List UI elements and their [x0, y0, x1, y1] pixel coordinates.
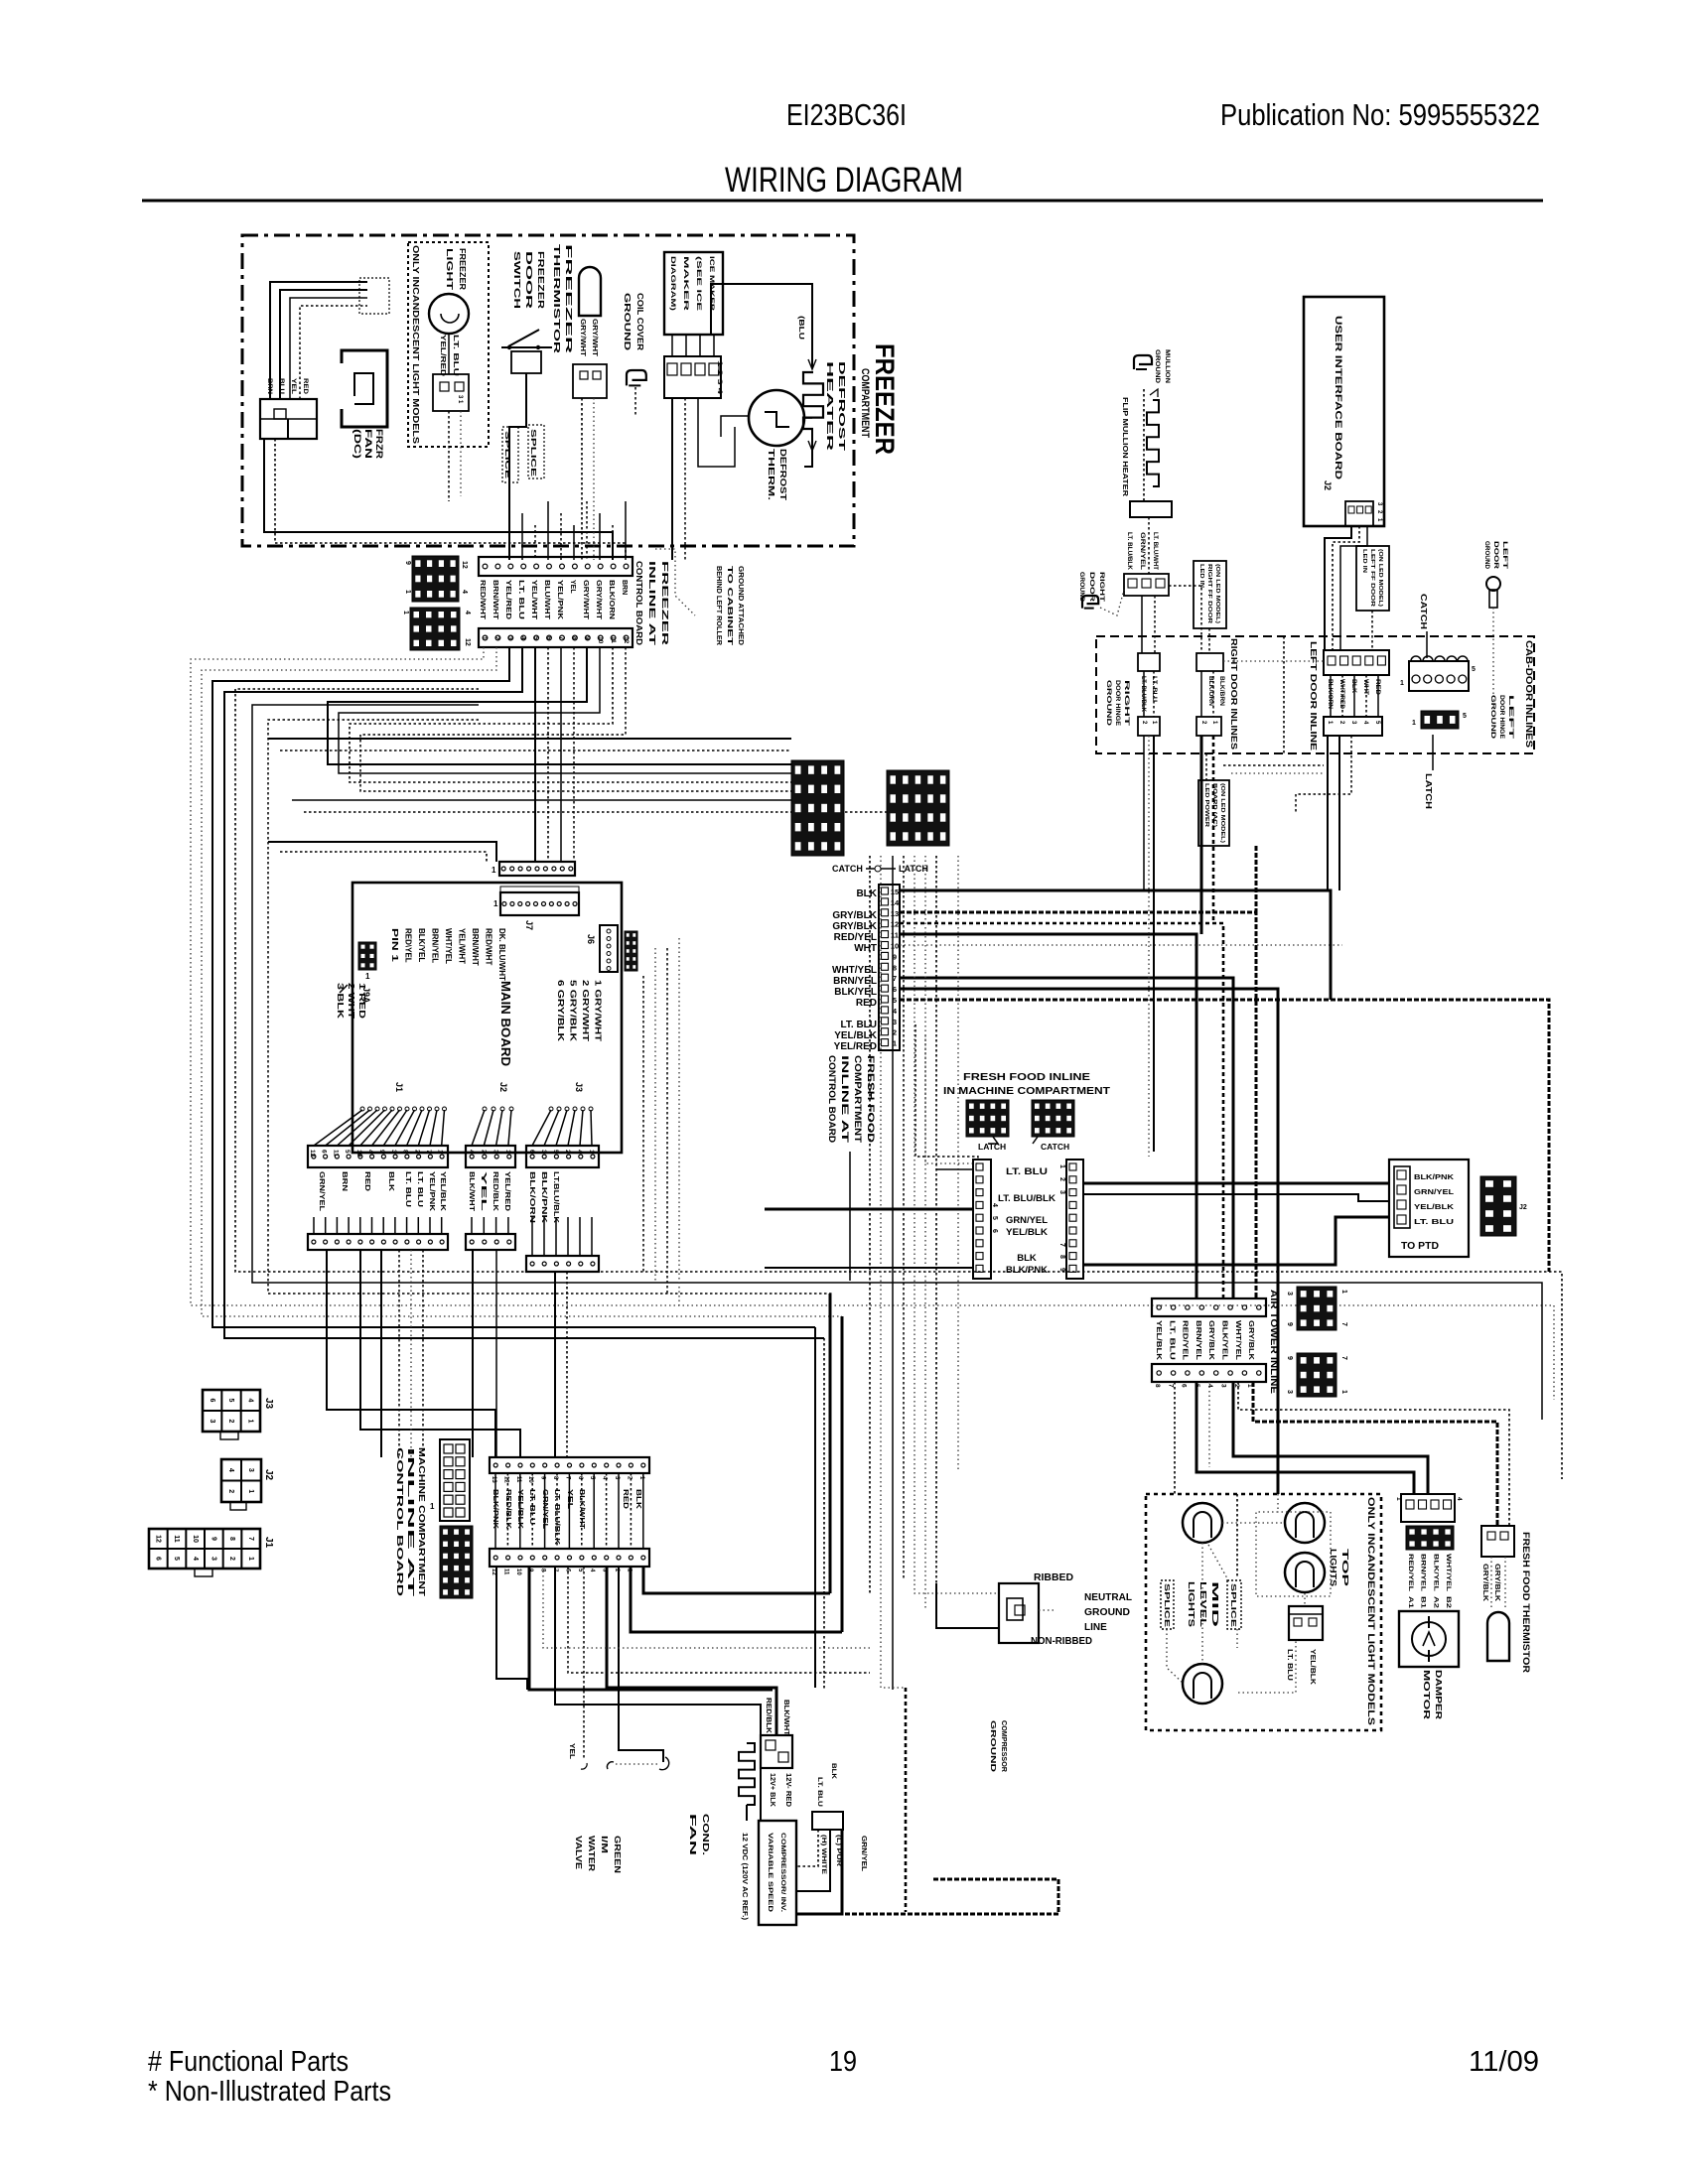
svg-text:9: 9: [404, 561, 411, 565]
svg-text:YEL/BLK: YEL/BLK: [1414, 1202, 1455, 1211]
svg-text:INLINE AT: INLINE AT: [406, 1447, 416, 1599]
svg-text:GRY/BLK: GRY/BLK: [1493, 1564, 1500, 1601]
svg-text:LIGHT: LIGHT: [445, 248, 455, 291]
svg-text:RED/WHT: RED/WHT: [479, 580, 486, 620]
svg-text:DIAGRAM): DIAGRAM): [669, 256, 676, 311]
svg-text:INLINE AT: INLINE AT: [840, 1055, 850, 1144]
svg-text:LT. BLU: LT. BLU: [1168, 1320, 1175, 1360]
label RIGHT DOOR INLINES: [1229, 638, 1238, 751]
LED in left FF door box: [1356, 546, 1389, 611]
svg-text:1: 1: [504, 1150, 511, 1154]
svg-text:BLK: BLK: [387, 1171, 396, 1192]
air tower inline upper strip: [1152, 1298, 1266, 1316]
svg-text:BLK/PNK: BLK/PNK: [1414, 1172, 1455, 1181]
svg-text:4: 4: [1456, 1497, 1463, 1501]
svg-text:1: 1: [437, 1150, 444, 1154]
ice maker box: [664, 252, 723, 335]
svg-text:2: 2: [564, 1150, 571, 1154]
svg-text:3: 3: [1220, 1384, 1227, 1388]
coil cover ground clip: [627, 370, 646, 417]
svg-text:2: 2: [480, 1150, 487, 1154]
wire LED left to inline: [1371, 611, 1373, 650]
svg-text:LT. BLU: LT. BLU: [1006, 1166, 1048, 1177]
main board box: [352, 883, 622, 1153]
svg-text:LED IN: LED IN: [1198, 564, 1204, 588]
svg-text:1: 1: [365, 972, 370, 981]
label DAMPER MOTOR: [1422, 1670, 1444, 1719]
label NEUTRAL GROUND LINE: [1084, 1592, 1132, 1633]
svg-text:11: 11: [173, 1535, 180, 1543]
svg-text:FRESH FOOD INLINE: FRESH FOOD INLINE: [963, 1072, 1090, 1083]
svg-text:4: 4: [246, 1399, 253, 1403]
svg-text:PIN 1: PIN 1: [390, 928, 399, 963]
svg-text:12 VDC (120V AC REF.): 12 VDC (120V AC REF.): [741, 1833, 748, 1920]
wire LED power board: [1206, 753, 1324, 912]
label DEFROST HEATER: [825, 361, 847, 453]
svg-text:BLK: BLK: [830, 1763, 837, 1779]
svg-text:12: 12: [461, 561, 468, 569]
svg-text:ONLY INCANDESCENT LIGHT MODELS: ONLY INCANDESCENT LIGHT MODELS: [1366, 1497, 1376, 1725]
label J3 wire colors: [528, 1171, 561, 1224]
wire right door inline verticals: [1144, 671, 1213, 717]
svg-text:BLK/PNK: BLK/PNK: [540, 1171, 549, 1224]
svg-text:4: 4: [468, 1150, 475, 1154]
label ICE MAKER (SEE ICE MAKER DIAGRAM): [669, 256, 715, 312]
svg-text:FREEZER: FREEZER: [564, 244, 574, 353]
label FREEZER LIGHT: [445, 248, 468, 291]
svg-text:DEFROST: DEFROST: [837, 361, 847, 453]
wire bundle to J7 strip: [268, 842, 496, 862]
svg-text:1: 1: [1058, 1164, 1065, 1168]
svg-text:9: 9: [584, 636, 591, 640]
svg-text:YEL/RED: YEL/RED: [503, 1171, 512, 1212]
svg-text:DOOR HINGE: DOOR HINGE: [1114, 680, 1120, 726]
svg-text:BOARD (AC): BOARD (AC): [1211, 783, 1217, 827]
wire left door down: [1296, 736, 1351, 890]
header publication number: [1220, 97, 1540, 132]
svg-text:LT. BLU: LT. BLU: [452, 335, 461, 376]
connector J1: [308, 1146, 448, 1167]
svg-text:FLIP MULLION HEATER: FLIP MULLION HEATER: [1121, 397, 1130, 497]
svg-text:RIGHT: RIGHT: [1123, 680, 1129, 727]
svg-text:11: 11: [891, 931, 899, 940]
svg-text:WIRING DIAGRAM: WIRING DIAGRAM: [725, 161, 963, 200]
svg-text:WHT: WHT: [854, 943, 877, 954]
svg-text:CONTROL BOARD: CONTROL BOARD: [634, 561, 644, 645]
svg-text:BLK/YEL: BLK/YEL: [1432, 1554, 1439, 1591]
catch connector small: [1032, 1100, 1074, 1152]
svg-text:8: 8: [1154, 1384, 1161, 1388]
label fresh food inline pair wire colors: [998, 1166, 1055, 1276]
label fresh food inline wire colors: [832, 888, 878, 1052]
label 12V+ BLK 12V- RED: [769, 1773, 791, 1807]
label GRY/WHT GRY/WHT: [579, 319, 598, 357]
svg-text:14: 14: [891, 898, 900, 907]
svg-text:LT. BLU: LT. BLU: [517, 580, 524, 619]
wire air tower to fresh food thermistor: [1238, 1382, 1509, 1526]
svg-text:10: 10: [515, 1569, 521, 1575]
svg-text:MOTOR: MOTOR: [1422, 1670, 1432, 1719]
label wire colors RED YEL BLU BRN: [266, 378, 309, 394]
svg-text:DAMPER: DAMPER: [1434, 1670, 1444, 1719]
svg-text:3: 3: [1286, 1390, 1293, 1394]
svg-text:5: 5: [173, 1557, 180, 1561]
svg-text:15: 15: [891, 887, 899, 896]
svg-text:10: 10: [891, 942, 899, 951]
label TOP LIGHTS: [1329, 1549, 1350, 1587]
svg-text:CATCH: CATCH: [1041, 1142, 1069, 1152]
svg-text:CONTROL BOARD: CONTROL BOARD: [395, 1447, 405, 1596]
svg-text:FREEZER: FREEZER: [870, 343, 900, 455]
freezer thermistor bulb: [579, 267, 601, 316]
right door inline connector upper: [1138, 653, 1223, 671]
svg-text:BLK/YEL: BLK/YEL: [1221, 1320, 1228, 1361]
svg-text:WHT/YEL: WHT/YEL: [1445, 1554, 1452, 1591]
svg-text:RIGHT DOOR INLINES: RIGHT DOOR INLINES: [1229, 638, 1238, 751]
svg-text:LT. BLU/BLK: LT. BLU/BLK: [998, 1193, 1055, 1204]
label MID LEVEL LIGHTS: [1187, 1581, 1220, 1627]
svg-text:LT. BLU: LT. BLU: [404, 1171, 413, 1207]
svg-text:CAB-DOOR INLINES: CAB-DOOR INLINES: [1524, 640, 1534, 748]
svg-text:9: 9: [210, 1537, 216, 1541]
svg-text:GRY/WHT: GRY/WHT: [582, 580, 589, 620]
label damper pins A1 B1 A2 B2: [1407, 1596, 1452, 1609]
top light lamp 2: [1285, 1503, 1325, 1543]
wire right door down: [1144, 736, 1213, 1157]
freezer inline mating connector A: [404, 556, 468, 602]
svg-text:FAN: FAN: [363, 429, 373, 459]
svg-text:LEFT: LEFT: [1501, 541, 1507, 570]
svg-text:1: 1: [493, 899, 498, 908]
wire GRY/BLK pin13: [900, 912, 1256, 1298]
label COND. FAN: [688, 1814, 711, 1855]
cab door latch connector: [1412, 711, 1467, 729]
wire bundle nested loops: [235, 689, 1562, 1479]
svg-text:2: 2: [228, 1557, 235, 1561]
svg-text:3: 3: [540, 1150, 547, 1154]
svg-text:YEL: YEL: [480, 1171, 489, 1212]
svg-text:12V+ BLK: 12V+ BLK: [769, 1773, 775, 1807]
svg-text:COMPRESSOR: COMPRESSOR: [1000, 1720, 1007, 1772]
svg-text:COMPRESSOR/ INV.: COMPRESSOR/ INV.: [779, 1833, 786, 1912]
label FRESH FOOD INLINE IN MACHINE COMPARTMENT: [943, 1072, 1110, 1097]
svg-text:TO CABINET: TO CABINET: [726, 566, 733, 646]
wire main board right bundle: [643, 938, 679, 1305]
svg-text:5: 5: [1463, 713, 1467, 720]
wire mullion to cab door: [1142, 517, 1155, 653]
svg-text:YEL: YEL: [290, 378, 297, 394]
svg-text:1: 1: [1340, 1390, 1347, 1394]
wire bundle freezer pins 5-8 to main board: [535, 647, 574, 862]
svg-text:YEL: YEL: [566, 1489, 575, 1510]
svg-text:4: 4: [192, 1557, 199, 1561]
svg-text:LEFT DOOR INLINE: LEFT DOOR INLINE: [1309, 641, 1318, 751]
left door inline connector lower: [1324, 717, 1382, 736]
label J1 wire colors: [318, 1171, 448, 1212]
svg-text:FRZR: FRZR: [374, 429, 384, 460]
svg-text:DK. BLU/WHT: DK. BLU/WHT: [497, 928, 506, 981]
svg-text:FRESH FOOD THERMISTOR: FRESH FOOD THERMISTOR: [1521, 1532, 1531, 1674]
label COMPARTMENT: [859, 368, 871, 438]
wire left door ground dotted: [1492, 608, 1494, 695]
connector J2 machine side: [221, 1459, 274, 1510]
svg-text:RED/YEL: RED/YEL: [1407, 1554, 1414, 1591]
title WIRING DIAGRAM: [725, 161, 963, 200]
wire ice maker to inline: [672, 398, 735, 560]
svg-text:GRY/BLK: GRY/BLK: [1207, 1320, 1214, 1360]
freezer thermistor connector: [573, 364, 607, 398]
label GRN/YEL compressor: [860, 1836, 869, 1871]
svg-text:SPLICE: SPLICE: [1163, 1583, 1170, 1628]
svg-text:5: 5: [532, 636, 539, 640]
svg-text:1: 1: [588, 1150, 595, 1154]
svg-text:LT. BLU: LT. BLU: [816, 1777, 823, 1807]
label CAB-DOOR INLINES: [1524, 640, 1534, 748]
svg-text:11: 11: [332, 1150, 339, 1157]
label J7 pin list: [390, 928, 506, 981]
svg-text:5 GRY/BLK: 5 GRY/BLK: [569, 980, 578, 1041]
svg-text:GRN/YEL: GRN/YEL: [1006, 1215, 1048, 1226]
svg-text:12V- RED: 12V- RED: [784, 1773, 791, 1807]
label RIBBED: [1034, 1572, 1073, 1583]
svg-text:COND.: COND.: [701, 1814, 711, 1855]
svg-text:EI23BC36I: EI23BC36I: [786, 97, 907, 132]
wire neutral ground leads: [881, 1583, 1055, 1688]
label COIL COVER GROUND: [623, 293, 645, 350]
defrost thermostat: [749, 390, 804, 446]
svg-text:YEL: YEL: [568, 1743, 575, 1760]
wire compressor ground hatched: [796, 1688, 1058, 1914]
svg-text:RED: RED: [1374, 679, 1380, 696]
label GROUND ATTACHED TO CABINET BEHIND LEFT ROLLER: [715, 566, 744, 646]
svg-text:7: 7: [1167, 1384, 1174, 1388]
svg-text:FREEZER: FREEZER: [660, 561, 670, 645]
svg-text:RED/YEL: RED/YEL: [1182, 1320, 1189, 1361]
svg-text:HEATER: HEATER: [825, 361, 835, 451]
label compressor wires: [816, 1763, 842, 1875]
label TO PTD: [1401, 1241, 1439, 1252]
machine compartment inline mate: [440, 1526, 473, 1598]
TO PTD box: [1389, 1160, 1469, 1257]
wire air tower to damper connector: [1175, 1382, 1428, 1494]
mullion ground clip: [1134, 355, 1152, 369]
svg-text:BRN/YEL: BRN/YEL: [1420, 1554, 1427, 1591]
svg-text:11: 11: [610, 636, 617, 643]
svg-text:J1: J1: [263, 1537, 274, 1549]
splice S2: [528, 425, 544, 478]
wire machine compartment strip verticals: [495, 1473, 643, 1549]
label FREEZER THERMISTOR: [552, 244, 574, 353]
svg-text:COMPARTMENT: COMPARTMENT: [859, 368, 871, 438]
freezer light models box: [408, 242, 489, 447]
svg-text:BLK/ORN: BLK/ORN: [608, 580, 615, 619]
fresh food thermistor bulb: [1487, 1612, 1509, 1661]
svg-text:3: 3: [492, 1150, 499, 1154]
svg-text:WHT: WHT: [1362, 679, 1368, 695]
svg-text:2 GRY/WHT: 2 GRY/WHT: [581, 980, 590, 1041]
wire thermistor to inline: [582, 398, 594, 560]
label LEFT DOOR INLINE: [1309, 641, 1318, 751]
svg-text:6: 6: [321, 1150, 328, 1154]
right door ground clip: [1082, 590, 1124, 615]
svg-text:A1: A1: [1407, 1596, 1414, 1609]
svg-text:LT. BLU/BLK: LT. BLU/BLK: [1140, 676, 1146, 713]
splice in lights box left: [1161, 1580, 1174, 1629]
splice S1: [502, 427, 518, 482]
wire J3 fan: [532, 1107, 593, 1146]
svg-text:YEL/BLK: YEL/BLK: [1309, 1649, 1316, 1685]
svg-text:BLK/YEL: BLK/YEL: [417, 928, 426, 962]
svg-text:12: 12: [623, 636, 630, 644]
svg-text:RED/BLK: RED/BLK: [504, 1489, 513, 1530]
wire cab-door cross links: [1169, 586, 1324, 661]
svg-text:YEL/BLK: YEL/BLK: [439, 1171, 448, 1212]
svg-text:3: 3: [247, 1468, 254, 1472]
svg-text:GROUND: GROUND: [623, 293, 633, 350]
wire freezer light to splice: [449, 334, 461, 501]
wire bundle freezer pins 9-12 to fresh food latch: [328, 647, 791, 791]
svg-text:BEHIND LEFT ROLLER: BEHIND LEFT ROLLER: [715, 566, 722, 645]
svg-text:LIGHTS: LIGHTS: [1329, 1549, 1338, 1586]
svg-text:10: 10: [192, 1535, 199, 1543]
svg-text:TOP: TOP: [1340, 1549, 1350, 1587]
air tower inline lower strip: [1152, 1364, 1266, 1388]
label FREEZER DOOR SWITCH: [512, 251, 546, 309]
label AIR TOWER INLINE: [1269, 1290, 1279, 1394]
wire J1 fan: [314, 1107, 447, 1146]
label J9A pin list: [336, 983, 366, 1019]
svg-text:8: 8: [402, 1150, 409, 1154]
connector J7: [493, 887, 579, 930]
label FRZR FAN (DC): [352, 429, 384, 460]
svg-text:3: 3: [209, 1420, 215, 1424]
svg-text:12: 12: [464, 638, 471, 646]
svg-text:J2: J2: [263, 1469, 274, 1481]
freezer inline connector upper strip: [479, 557, 633, 576]
svg-text:GRY/BLK: GRY/BLK: [832, 921, 877, 932]
label J2 UI: [1323, 480, 1333, 490]
svg-text:BLK/WHT: BLK/WHT: [782, 1700, 789, 1736]
label NON-RIBBED: [1031, 1636, 1092, 1647]
damper mate connector: [1406, 1526, 1454, 1550]
fresh food inline right strip: [1058, 1160, 1083, 1279]
freezer fan coil FRZR FAN (DC): [342, 350, 387, 427]
svg-text:6: 6: [1181, 1384, 1188, 1388]
svg-text:13: 13: [891, 909, 899, 918]
svg-text:J1: J1: [394, 1082, 404, 1092]
damper motor: [1399, 1611, 1459, 1667]
fresh food latch connector grid: [791, 760, 844, 856]
latch connector small: [966, 1100, 1009, 1152]
svg-text:BLK/BRN: BLK/BRN: [1218, 676, 1224, 706]
label air tower wire colors: [1155, 1320, 1254, 1361]
TO PTD mate connector: [1480, 1176, 1527, 1236]
svg-text:FREEZER: FREEZER: [536, 251, 546, 309]
svg-text:1: 1: [402, 611, 409, 614]
svg-text:J6: J6: [586, 934, 596, 944]
svg-text:GROUND: GROUND: [1489, 695, 1495, 740]
svg-text:1: 1: [247, 1489, 254, 1493]
svg-text:B2: B2: [1445, 1596, 1452, 1609]
svg-text:BRN: BRN: [341, 1171, 350, 1191]
svg-text:1: 1: [492, 866, 496, 875]
label GREEN I/M WATER VALVE: [574, 1836, 623, 1873]
svg-text:10: 10: [597, 636, 604, 644]
svg-text:VALVE: VALVE: [574, 1836, 584, 1869]
svg-text:LT. BLU/BLK: LT. BLU/BLK: [553, 1489, 562, 1546]
connector J1 lower strip: [308, 1234, 448, 1250]
svg-text:4: 4: [464, 611, 471, 614]
label RIGHT DOOR GROUND: [1078, 572, 1105, 602]
wire J2 fan: [472, 1107, 513, 1146]
label LT. BLU YEL/RED: [439, 335, 461, 377]
freezer light connector: [433, 374, 469, 411]
wire right bus verticals: [815, 1294, 842, 1690]
svg-text:BLK/WHT: BLK/WHT: [468, 1171, 477, 1211]
label ONLY INCANDESCENT LIGHT MODELS: [411, 245, 421, 444]
incandescent light models box: [1146, 1494, 1381, 1730]
svg-text:RED: RED: [302, 378, 309, 394]
connector J1 machine side: [149, 1529, 274, 1576]
label J1 J2 J3: [394, 1082, 584, 1092]
title underline rule: [142, 200, 1543, 203]
wire left door to fresh food inline: [1330, 890, 1333, 1000]
freezer fan connector: [260, 399, 317, 439]
svg-text:MID: MID: [1210, 1581, 1220, 1627]
label GRY/BLK GRY/BLK thermistor: [1481, 1564, 1500, 1601]
label USER INTERFACE BOARD: [1333, 316, 1343, 479]
svg-text:WHT/YEL: WHT/YEL: [444, 928, 453, 964]
svg-text:RIBBED: RIBBED: [1034, 1572, 1073, 1583]
svg-text:6: 6: [545, 636, 552, 640]
label TO PTD pins: [1414, 1172, 1455, 1226]
svg-text:3: 3: [210, 1557, 216, 1561]
connector J3: [526, 1146, 599, 1167]
svg-text:(ON LED MODEL): (ON LED MODEL): [1219, 783, 1225, 843]
fresh food thermistor connector: [1481, 1526, 1514, 1557]
label CATCH LATCH upper: [832, 864, 928, 874]
svg-text:LT. BLU: LT. BLU: [416, 1171, 425, 1207]
label RIGHT DOOR HINGE GROUND: [1105, 680, 1129, 727]
svg-text:5: 5: [552, 1150, 559, 1154]
svg-text:GRY/BLK: GRY/BLK: [1247, 1320, 1254, 1360]
LED power board box: [1198, 780, 1229, 846]
svg-text:J3: J3: [574, 1082, 584, 1092]
svg-text:8: 8: [571, 636, 578, 640]
wire UI board to left door: [1325, 526, 1367, 650]
svg-text:DOOR: DOOR: [524, 251, 534, 309]
svg-text:RED/BLK: RED/BLK: [765, 1698, 772, 1733]
svg-text:3 1: 3 1: [457, 395, 463, 404]
svg-text:DOOR: DOOR: [1088, 572, 1095, 602]
svg-text:SPLICE: SPLICE: [529, 429, 536, 478]
svg-text:RIGHT FF DOOR: RIGHT FF DOOR: [1206, 564, 1212, 623]
wire BRN/YEL pin7: [900, 978, 1233, 1298]
top light lamp 3: [1285, 1553, 1325, 1592]
wire cond fan dotted: [607, 1757, 668, 1770]
wire RED/YEL pin11: [900, 934, 1196, 1298]
svg-text:COIL COVER: COIL COVER: [635, 293, 645, 350]
label CATCH cab door: [1419, 594, 1429, 658]
label FREEZER INLINE AT CONTROL BOARD: [634, 561, 670, 647]
footer page number 19: [829, 2046, 857, 2078]
svg-text:TO PTD: TO PTD: [1401, 1241, 1439, 1252]
label freezer inline wire colors: [479, 580, 628, 620]
label right door upper wires: [1126, 532, 1158, 571]
right door inline connector lower: [1138, 717, 1221, 736]
air tower mate connector upper: [1286, 1287, 1347, 1330]
svg-text:INLINE AT: INLINE AT: [647, 561, 657, 647]
